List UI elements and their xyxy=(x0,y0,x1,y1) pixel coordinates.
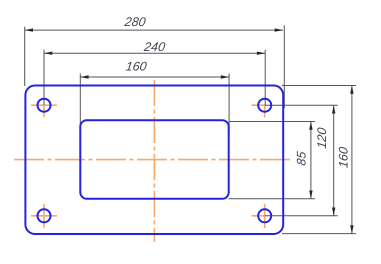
hole top-left xyxy=(38,99,51,112)
dimension 160 top extension line right xyxy=(228,74,230,134)
dimension 160 top extension line left xyxy=(79,74,81,126)
dimension 240 arrow left xyxy=(44,52,52,55)
hole top-right xyxy=(258,99,271,112)
dimension 85 arrow bottom xyxy=(309,191,312,199)
dimension 160 right arrow bottom xyxy=(350,225,353,233)
svg-text:120: 120 xyxy=(315,127,329,150)
dimension 280 extension line left xyxy=(24,27,26,86)
svg-text:160: 160 xyxy=(336,146,350,169)
dimension 280 extension line right xyxy=(283,25,285,108)
svg-text:280: 280 xyxy=(123,15,147,29)
dimension 85 arrow top xyxy=(309,122,312,130)
dimension 160 right leader bottom xyxy=(282,233,356,235)
dimension 240 extension line left xyxy=(43,50,45,105)
dimension 160 right line xyxy=(351,86,353,234)
horizontal centerline xyxy=(14,159,291,161)
plate outline xyxy=(25,86,283,235)
dimension 120 line xyxy=(333,105,335,216)
dimension 240 arrow right xyxy=(257,52,265,55)
dimension 160 right leader top xyxy=(282,85,356,87)
dimension 85 leader bottom xyxy=(229,198,315,200)
dimension 240 extension line right xyxy=(264,50,266,105)
dimension 280 arrow right xyxy=(275,28,283,31)
hole crosshair top-right xyxy=(252,105,266,117)
hole crosshair top-left xyxy=(31,105,57,117)
dimension 280 line xyxy=(25,29,283,31)
dimension 240 line xyxy=(44,52,265,54)
pocket outline xyxy=(80,120,228,199)
hole crosshair bottom-left xyxy=(31,204,57,228)
hole crosshair bottom-right xyxy=(252,204,266,228)
dimension 160 top line xyxy=(80,76,229,78)
hole bottom-left xyxy=(38,209,51,222)
svg-text:160: 160 xyxy=(125,60,148,74)
hole bottom-right xyxy=(258,209,271,222)
svg-text:240: 240 xyxy=(142,40,166,54)
dimension 120 leader bottom xyxy=(265,215,338,217)
dimension 160 right arrow top xyxy=(350,86,353,94)
dimension 160 top arrow right xyxy=(221,75,229,78)
dimension 120 arrow top xyxy=(332,105,335,113)
dimension 85 leader top xyxy=(229,121,315,123)
dimension 280 arrow left xyxy=(25,28,33,31)
dimension 120 arrow bottom xyxy=(332,208,335,216)
dimension 160 top arrow left xyxy=(80,75,88,78)
vertical centerline xyxy=(153,80,155,242)
dimension 120 leader top xyxy=(265,104,338,106)
dimension 85 line xyxy=(310,122,312,199)
svg-text:85: 85 xyxy=(294,151,308,167)
